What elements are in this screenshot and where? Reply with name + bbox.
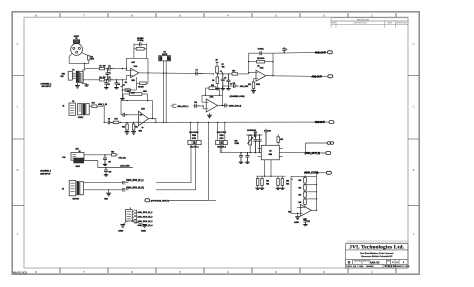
wire U1A output node xyxy=(139,72,149,73)
ground C17 xyxy=(103,164,107,165)
net label tape R xyxy=(126,186,144,189)
ground R9 xyxy=(215,89,219,90)
svg-text:R18: R18 xyxy=(211,85,214,87)
net label CH2 in xyxy=(116,155,127,160)
wire T1 secondary top to R2 xyxy=(82,69,99,71)
svg-text:(AUX_RET): (AUX_RET) xyxy=(120,165,129,168)
svg-text:DATE: DATE xyxy=(388,22,394,25)
svg-text:6K8: 6K8 xyxy=(91,59,94,61)
label channel 1 send xyxy=(230,95,245,98)
ground T1 secondary tap xyxy=(84,85,88,86)
wire C4 to trim cluster xyxy=(203,73,214,74)
svg-text:+15: +15 xyxy=(215,59,218,61)
trimpot R7 xyxy=(215,59,225,74)
op-amp U2C xyxy=(300,204,311,221)
net label ANA_OUT_4 xyxy=(304,171,326,175)
svg-text:ANA 03: ANA 03 xyxy=(370,260,380,264)
svg-text:CH2_IN+: CH2_IN+ xyxy=(118,158,127,160)
wire C10 to U2B non-inverting input xyxy=(200,105,206,109)
resistor R23 divider xyxy=(277,176,280,188)
svg-text:DRAWN: DRAWN xyxy=(366,265,374,268)
ground R23 R24 xyxy=(276,188,285,189)
relay K1 mute xyxy=(159,51,171,61)
svg-text:(CHANNEL 1 SND): (CHANNEL 1 SND) xyxy=(230,95,245,98)
transformer T2 xyxy=(72,101,89,119)
resistor R25 ladder xyxy=(304,176,307,185)
wire J1 pin 3 to R1 xyxy=(81,53,88,56)
flag bus 4 xyxy=(132,219,153,227)
svg-text:AN1-OUT: AN1-OUT xyxy=(312,74,323,78)
wire R10 to U2A xyxy=(237,72,256,74)
capacitor C13 input shunt xyxy=(245,152,249,162)
wire T1 secondary lower to ground tap xyxy=(82,83,87,85)
svg-text:150: 150 xyxy=(103,65,106,67)
wire U4 output xyxy=(283,152,313,154)
resistor R26 ladder xyxy=(304,185,307,193)
capacitor C5 shunt xyxy=(221,73,226,88)
svg-text:R11 20K0: R11 20K0 xyxy=(257,58,264,60)
wire U2A output to out 1- xyxy=(266,75,312,78)
capacitor C3 feedback xyxy=(134,40,147,46)
wire U1A output to channel 1 bus xyxy=(148,73,195,74)
connector P1 pin (out 4) xyxy=(326,171,331,174)
svg-text:AN1+OUT: AN1+OUT xyxy=(315,50,326,54)
wire J4 upper output to flag row 1 xyxy=(83,181,128,184)
ground R12 xyxy=(251,90,256,93)
svg-text:C8: C8 xyxy=(108,119,110,121)
ground R16 xyxy=(131,132,136,135)
svg-text:R2: R2 xyxy=(99,65,101,67)
svg-text:R31: R31 xyxy=(288,212,291,214)
svg-text:R4: R4 xyxy=(125,81,127,84)
wire K1 pin to line bus right xyxy=(166,61,167,123)
svg-text:C4: C4 xyxy=(195,69,197,72)
divider rail xyxy=(256,176,285,177)
ground JP3 right xyxy=(141,225,147,233)
svg-text:(ANA_BUS_IN_L): (ANA_BUS_IN_L) xyxy=(126,179,144,182)
flag bus 3 xyxy=(132,216,153,222)
svg-text:R17: R17 xyxy=(127,91,130,93)
capacitor C18 to ground xyxy=(104,168,111,175)
svg-text:D: D xyxy=(16,42,18,46)
wire JP1 pins to line bus xyxy=(190,122,199,141)
bottom-left filename text xyxy=(13,270,28,274)
net label bus 2 out xyxy=(229,105,241,108)
connector P1 pin (out 2) xyxy=(329,121,334,124)
resistor R18 feedback xyxy=(206,85,220,95)
trimpot R19 xyxy=(247,134,253,153)
svg-text:Vancouver British Columbia BC: Vancouver British Columbia BC xyxy=(361,255,393,258)
connector J4 channel 2 lower xyxy=(62,180,84,200)
resistor R29 series xyxy=(111,152,116,156)
net label ANA_OUT_2 xyxy=(315,120,329,124)
resistor R28 ladder xyxy=(304,199,307,208)
wire C3a to U1A non-inverting input xyxy=(114,75,131,80)
svg-text:C5: C5 xyxy=(108,84,110,86)
svg-text:R20: R20 xyxy=(280,139,283,141)
label ladder values xyxy=(298,180,302,204)
zone letters left margin xyxy=(13,42,25,236)
capacitor C15 shunt xyxy=(253,134,257,153)
svg-text:C30: C30 xyxy=(62,157,65,159)
header JP3 bus select xyxy=(125,210,132,221)
capacitor C4 coupling xyxy=(195,69,203,76)
resistor R10 xyxy=(232,70,237,75)
wire R3 to C3a xyxy=(105,79,109,80)
svg-text:APPROVED: APPROVED xyxy=(396,22,407,25)
svg-text:C11: C11 xyxy=(232,83,235,85)
svg-text:DESCRIPTION: DESCRIPTION xyxy=(354,23,368,25)
svg-text:(ANA_OUT4): (ANA_OUT4) xyxy=(304,171,318,175)
svg-text:MIC INPUT: MIC INPUT xyxy=(42,86,52,88)
capacitor C22 below xyxy=(303,218,310,226)
svg-text:C22: C22 xyxy=(307,221,310,223)
svg-text:B: B xyxy=(348,261,351,265)
svg-text:AGND: AGND xyxy=(141,229,147,232)
svg-text:R23: R23 xyxy=(286,181,289,183)
svg-text:B: B xyxy=(17,168,19,172)
trimpot R4 bias to ground xyxy=(121,80,127,99)
svg-text:R10: R10 xyxy=(232,70,235,72)
wire R13 to line bus corner xyxy=(97,106,105,123)
svg-text:(ANA_BUS_2): (ANA_BUS_2) xyxy=(229,105,241,108)
svg-text:R21: R21 xyxy=(266,181,269,183)
net label tape L xyxy=(126,179,144,182)
connector J1 XLR female (channel 1 mic input) xyxy=(71,38,83,55)
label J1 value xyxy=(74,36,80,38)
svg-text:R14: R14 xyxy=(115,118,118,121)
connector P1 pin (out 3) xyxy=(326,152,331,155)
resistor R24 divider xyxy=(281,176,284,188)
svg-text:AN2 OUT: AN2 OUT xyxy=(315,120,326,124)
flag bus 2 xyxy=(132,213,153,219)
capacitor C12 input shunt xyxy=(239,152,243,162)
transformer T1 xyxy=(68,70,83,83)
svg-text:C6: C6 xyxy=(118,84,120,86)
svg-text:(OPTIONAL INPUT): (OPTIONAL INPUT) xyxy=(151,199,169,202)
wire U2B feedback loop xyxy=(202,95,223,107)
op-amp U2B xyxy=(206,97,217,112)
wire J3 upper output xyxy=(84,154,111,155)
resistor R5 feedback lower xyxy=(136,73,148,89)
wire output branch to aux pair xyxy=(305,143,327,154)
svg-text:5532: 5532 xyxy=(256,84,260,86)
svg-text:1OF2: 1OF2 xyxy=(192,138,196,140)
svg-text:C2: C2 xyxy=(108,65,110,67)
wire T1 shield to ground xyxy=(76,83,78,86)
wire U1B feedback loop xyxy=(121,100,152,119)
svg-text:C3: C3 xyxy=(108,77,110,79)
capacitor C10 series xyxy=(193,102,200,108)
wire T1 secondary bottom to R3 xyxy=(83,79,99,81)
capacitor C6a shunt xyxy=(115,80,120,88)
wire top rail to output plus xyxy=(273,52,315,53)
ground C5b xyxy=(226,89,230,90)
svg-text:REVISIONS: REVISIONS xyxy=(357,20,369,22)
wire line bus start xyxy=(104,121,108,123)
ground R15 xyxy=(125,132,130,135)
svg-text:CHANNEL 1: CHANNEL 1 xyxy=(41,82,53,85)
label channel 1 mic input xyxy=(41,82,53,88)
svg-text:TRIM: TRIM xyxy=(234,143,239,145)
wire U4 bottom pins to divider rail xyxy=(265,160,272,176)
svg-text:C3 270p: C3 270p xyxy=(137,40,144,42)
connector P1 pin (out 1+) xyxy=(327,51,332,54)
ground U2C xyxy=(294,217,300,224)
wire JP1 pin to channel 2 flag row 1 xyxy=(156,145,191,183)
capacitor C1 between lines xyxy=(105,69,110,80)
capacitor C9 series xyxy=(121,113,129,117)
svg-text:LINE_1_IN: LINE_1_IN xyxy=(98,104,107,106)
svg-text:R9: R9 xyxy=(212,80,214,82)
wire trim top rail xyxy=(246,134,262,136)
label divider values 2 xyxy=(286,181,289,186)
wire C2a to U1A inverting input xyxy=(114,68,131,71)
svg-text:B: B xyxy=(413,168,415,172)
svg-text:TRIM: TRIM xyxy=(219,135,224,137)
label R17 xyxy=(127,91,130,93)
capacitor C7 bypass xyxy=(282,47,288,53)
svg-text:C18: C18 xyxy=(108,171,111,173)
label trim values xyxy=(247,130,257,132)
resistor R15 shunt xyxy=(122,122,128,132)
svg-text:C5: C5 xyxy=(224,77,226,79)
wire JP3 ground stub left xyxy=(123,221,127,225)
label C3 value xyxy=(137,38,143,40)
label channel 2 xyxy=(40,169,52,175)
wire J3 lower output xyxy=(84,161,133,169)
wire U2C non-inverting to ground xyxy=(297,213,298,217)
line bus wire across sheet xyxy=(121,121,315,123)
ground C5 xyxy=(221,89,225,90)
net label AUX return xyxy=(120,165,129,168)
svg-text:C: C xyxy=(412,105,414,109)
wire trim cluster to R10 xyxy=(217,73,232,75)
ground JP3 left xyxy=(118,225,125,233)
resistor R11 feedback xyxy=(248,58,274,63)
resistor R2 xyxy=(99,65,105,69)
svg-text:C10: C10 xyxy=(194,102,197,104)
zone ticks and numbers top margin xyxy=(35,13,396,17)
connector J2 line input xyxy=(62,103,75,115)
svg-text:2OF2: 2OF2 xyxy=(219,138,223,140)
svg-text:R16: R16 xyxy=(135,126,138,128)
wire JP2 pins to line bus xyxy=(217,122,226,141)
svg-text:150: 150 xyxy=(103,77,106,79)
connector optional input oval xyxy=(145,199,150,202)
op-amp U2A xyxy=(256,66,266,86)
svg-text:C6 100p: C6 100p xyxy=(258,49,265,51)
signal conditioner U4 xyxy=(258,145,283,160)
capacitor C16 shunt xyxy=(258,134,262,153)
svg-text:+15: +15 xyxy=(257,66,260,68)
svg-text:C17: C17 xyxy=(108,161,111,163)
wire rail up to C11 row xyxy=(222,86,233,95)
net label ANA_OUT_1- xyxy=(312,74,328,78)
svg-text:(ANA_OUT_3): (ANA_OUT_3) xyxy=(305,151,320,155)
connector P1 pin (out 1-) xyxy=(328,75,333,78)
svg-text:5532: 5532 xyxy=(131,80,135,82)
op-amp U1B xyxy=(139,109,149,126)
wire optional to JP2 xyxy=(168,199,216,201)
svg-text:TRIM: TRIM xyxy=(192,135,197,137)
ground U2B bias xyxy=(207,113,212,118)
capacitor C6 feedback xyxy=(258,49,265,56)
wire T2 secondary to R13 xyxy=(89,105,92,107)
svg-text:AGND: AGND xyxy=(118,229,124,232)
capacitor C14 top xyxy=(254,131,257,137)
wire ladder bottom to U2C inverting input xyxy=(297,206,305,208)
svg-text:ANA03.SCH: ANA03.SCH xyxy=(13,270,28,274)
svg-text:SHEET 1 OF 2: SHEET 1 OF 2 xyxy=(396,266,410,268)
wire U2A feedback loop xyxy=(249,53,274,76)
label divider values xyxy=(266,181,269,186)
header JP1 signal conditioning xyxy=(188,132,201,148)
svg-text:R29: R29 xyxy=(111,152,114,154)
svg-text:DATE: DATE xyxy=(347,265,353,268)
svg-text:ANA_BUS_IN_3: ANA_BUS_IN_3 xyxy=(137,220,153,223)
wire U1B output to line bus xyxy=(149,118,157,123)
label optional xyxy=(151,199,169,202)
wire ladder top rung xyxy=(291,176,317,177)
svg-text:R13: R13 xyxy=(92,103,95,105)
svg-text:R15: R15 xyxy=(122,126,125,128)
svg-text:C: C xyxy=(16,105,18,109)
svg-text:R5 10K: R5 10K xyxy=(138,86,144,88)
ground C12 xyxy=(239,162,243,163)
net label ANA_OUT_3 xyxy=(305,151,326,155)
svg-text:5532: 5532 xyxy=(139,131,142,133)
svg-text:10K0: 10K0 xyxy=(143,91,147,93)
capacitor C17 to ground xyxy=(103,155,111,165)
revision table top right xyxy=(331,18,408,28)
capacitor C3a series xyxy=(108,77,113,82)
svg-text:R22: R22 xyxy=(266,184,269,186)
wire U1B non-inverting input stub xyxy=(136,121,139,123)
svg-text:(ANA_BUS_IN_R): (ANA_BUS_IN_R) xyxy=(126,186,144,189)
header JP2 signal conditioning xyxy=(216,132,228,148)
net label line in xyxy=(98,104,107,106)
svg-text:MUTE: MUTE xyxy=(162,54,168,56)
ground J4 shield xyxy=(104,189,111,201)
resistor R1 xyxy=(88,56,94,61)
wire R1 to T1 primary node xyxy=(85,60,89,63)
outer border frame xyxy=(12,12,419,274)
resistor R21 divider xyxy=(256,176,259,188)
label T1 value xyxy=(61,74,66,79)
resistor R16 shunt xyxy=(132,122,137,132)
wire U2C output to right rail xyxy=(312,173,318,211)
svg-text:FSCM NO.: FSCM NO. xyxy=(354,260,362,262)
resistor R13 xyxy=(92,103,97,108)
resistor R17 feedback xyxy=(123,91,148,101)
svg-text:R24: R24 xyxy=(286,183,289,186)
svg-text:+15: +15 xyxy=(140,114,142,116)
net label bus return xyxy=(240,85,249,88)
wire U1A feedback loop xyxy=(126,44,148,73)
connector J3 channel 2 upper xyxy=(62,148,84,168)
svg-text:A: A xyxy=(17,232,19,236)
zone letters right margin xyxy=(408,42,419,236)
capacitor C5b shunt xyxy=(226,73,231,88)
svg-text:ANA_BUS_1: ANA_BUS_1 xyxy=(177,105,189,108)
svg-text:JUL 7 1994: JUL 7 1994 xyxy=(353,265,364,268)
ground R4 xyxy=(120,99,124,100)
svg-text:TAPE IN: TAPE IN xyxy=(72,197,79,200)
net label bus 1 xyxy=(177,105,189,108)
resistor R44 wiper xyxy=(125,89,135,95)
ground T1 shield xyxy=(75,85,80,88)
svg-text:SCALE 1/1: SCALE 1/1 xyxy=(385,265,397,268)
svg-text:R6 10K0: R6 10K0 xyxy=(137,38,143,40)
ground C5a xyxy=(104,88,108,89)
capacitor C20 bypass xyxy=(264,129,271,146)
title block xyxy=(346,240,411,268)
resistor R27 ladder xyxy=(304,192,307,200)
wire right rail to out 4 xyxy=(317,172,320,174)
ground C18 xyxy=(104,175,108,176)
resistor R14 series xyxy=(113,118,119,124)
svg-text:C1: C1 xyxy=(108,72,110,74)
wire R14 to junction xyxy=(119,122,122,123)
capacitor C8 series xyxy=(108,119,113,125)
svg-text:A: A xyxy=(413,232,415,236)
resistor R20 top xyxy=(277,134,283,145)
svg-text:R12: R12 xyxy=(248,84,251,86)
connector aux link pins xyxy=(327,142,333,145)
svg-text:D: D xyxy=(412,42,414,46)
svg-text:C13 R19 10K: C13 R19 10K xyxy=(247,130,257,132)
wire ladder left rail xyxy=(288,176,300,213)
svg-text:AN_SW_1: AN_SW_1 xyxy=(190,145,200,148)
wire J4 lower output to flag row 2 xyxy=(83,189,128,192)
wire JP2 pins to U4 input xyxy=(220,145,257,153)
capacitor C11 xyxy=(232,83,238,88)
wire J1 pin 2 to T1 primary xyxy=(69,54,85,71)
wire R2 to C2a xyxy=(105,68,109,69)
resistor R22 divider xyxy=(261,176,264,188)
flag ANA_BUS input xyxy=(170,104,176,107)
op-amp U1A xyxy=(131,62,139,82)
resistor R6 feedback xyxy=(134,48,147,51)
wire R4 wiper to R5 leg xyxy=(122,83,137,91)
net label ANA_OUT_1+ xyxy=(315,50,328,54)
resistor R9 shunt xyxy=(212,73,219,88)
capacitor C5a shunt xyxy=(104,80,109,88)
ground C6a xyxy=(114,88,118,89)
svg-text:JVL Technologies Ltd.: JVL Technologies Ltd. xyxy=(349,245,404,251)
svg-text:SIG COND: SIG COND xyxy=(217,132,227,134)
wire JP3 ground stub right xyxy=(131,221,145,225)
svg-text:One West Madison Tech Crescent: One West Madison Tech Crescent xyxy=(360,252,394,255)
inner border frame xyxy=(24,17,408,268)
ground R21 R22 xyxy=(255,188,264,189)
svg-text:ANA_RTN: ANA_RTN xyxy=(240,85,249,88)
wire U1B inverting input xyxy=(129,114,139,116)
svg-text:JT11P1: JT11P1 xyxy=(78,117,84,119)
resistor R3 xyxy=(99,77,105,81)
svg-text:K1: K1 xyxy=(164,51,166,53)
ladder taps to right rail xyxy=(305,184,317,200)
label sig trim xyxy=(234,140,239,145)
capacitor C2a series xyxy=(108,65,113,70)
svg-text:R3: R3 xyxy=(99,77,101,79)
resistor R12 to ground xyxy=(248,79,256,91)
svg-text:ANA_BUS_IN_1: ANA_BUS_IN_1 xyxy=(137,211,153,214)
svg-text:LINE INPUT: LINE INPUT xyxy=(40,173,51,175)
capacitor C21 output series xyxy=(222,104,228,108)
svg-text:ANA_BUS_IN_2: ANA_BUS_IN_2 xyxy=(137,215,153,218)
